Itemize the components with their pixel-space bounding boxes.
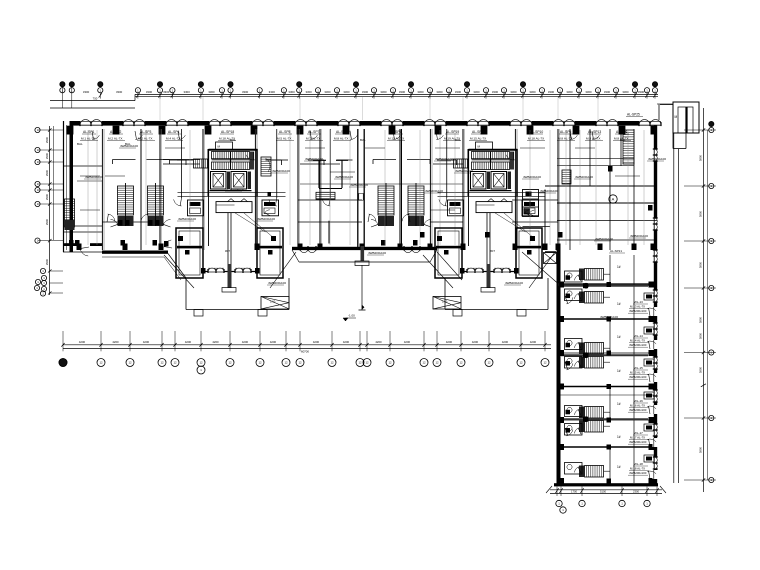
svg-text:4WB200x100: 4WB200x100 <box>629 343 647 347</box>
svg-text:2900: 2900 <box>45 218 49 225</box>
svg-text:AL-SP8: AL-SP8 <box>336 130 348 134</box>
svg-text:3300: 3300 <box>324 90 331 94</box>
svg-text:AL-SP5: AL-SP5 <box>560 130 572 134</box>
svg-text:12: 12 <box>228 361 232 365</box>
svg-text:3300: 3300 <box>604 90 611 94</box>
svg-text:4WB200x100: 4WB200x100 <box>335 175 353 179</box>
svg-text:12: 12 <box>435 361 439 365</box>
svg-text:4WB200x100: 4WB200x100 <box>629 309 647 313</box>
svg-text:AL-SP6: AL-SP6 <box>616 130 628 134</box>
svg-text:M.13 AL-7X: M.13 AL-7X <box>630 305 645 309</box>
svg-text:4200: 4200 <box>530 340 537 344</box>
svg-text:4WB200x100: 4WB200x100 <box>368 251 386 255</box>
svg-text:1#: 1# <box>617 369 621 373</box>
svg-text:3300: 3300 <box>184 90 191 94</box>
svg-text:4200: 4200 <box>472 340 479 344</box>
svg-text:5800: 5800 <box>699 154 703 161</box>
svg-text:4WB200x100: 4WB200x100 <box>629 471 647 475</box>
svg-text:4WB200x100: 4WB200x100 <box>595 237 613 241</box>
svg-text:3300: 3300 <box>529 90 536 94</box>
svg-text:AL-SP5: AL-SP5 <box>279 130 291 134</box>
svg-text:BAL: BAL <box>620 138 626 142</box>
svg-text:AL-SP9: AL-SP9 <box>390 130 402 134</box>
svg-text:4WB200x100: 4WB200x100 <box>505 281 523 285</box>
svg-text:3300: 3300 <box>510 90 517 94</box>
svg-text:AL-SP9: AL-SP9 <box>472 130 484 134</box>
svg-text:M.18 AL-7X: M.18 AL-7X <box>630 467 645 471</box>
svg-text:750: 750 <box>93 97 98 101</box>
svg-text:4WB200x100: 4WB200x100 <box>257 217 275 221</box>
svg-text:AL-SP7: AL-SP7 <box>308 130 320 134</box>
svg-text:AL-SP13: AL-SP13 <box>588 130 601 134</box>
svg-text:3300: 3300 <box>417 90 424 94</box>
svg-text:3300: 3300 <box>242 90 249 94</box>
svg-text:AL-SP18: AL-SP18 <box>221 130 234 134</box>
svg-text:4WB200x100: 4WB200x100 <box>435 157 453 161</box>
svg-text:4WB200x100: 4WB200x100 <box>629 375 647 379</box>
svg-text:4200: 4200 <box>446 340 453 344</box>
svg-text:M: M <box>675 115 678 119</box>
svg-text:M.14 AL-7X: M.14 AL-7X <box>630 339 645 343</box>
svg-text:AL-SP3: AL-SP3 <box>140 130 152 134</box>
svg-text:5800: 5800 <box>699 261 703 268</box>
svg-text:12: 12 <box>199 361 203 365</box>
svg-text:3300: 3300 <box>305 90 312 94</box>
svg-text:4200: 4200 <box>404 340 411 344</box>
svg-text:M.16 AL-7X: M.16 AL-7X <box>630 404 645 408</box>
svg-text:12: 12 <box>173 361 177 365</box>
svg-text:4WB200x100: 4WB200x100 <box>305 157 323 161</box>
svg-text:2900: 2900 <box>45 258 49 265</box>
svg-text:1#: 1# <box>617 335 621 339</box>
svg-text:3300: 3300 <box>380 90 387 94</box>
svg-text:4200: 4200 <box>270 340 277 344</box>
svg-text:3300: 3300 <box>638 90 645 94</box>
svg-text:M.2 AL-7X: M.2 AL-7X <box>108 136 122 140</box>
svg-text:12: 12 <box>160 361 164 365</box>
svg-text:4200: 4200 <box>185 340 192 344</box>
svg-text:4WB200x100: 4WB200x100 <box>629 440 647 444</box>
svg-text:AL-SP10: AL-SP10 <box>530 130 543 134</box>
svg-text:4200: 4200 <box>375 340 382 344</box>
svg-text:3300: 3300 <box>399 90 406 94</box>
svg-text:3300: 3300 <box>622 90 629 94</box>
svg-text:#07: #07 <box>490 249 495 253</box>
svg-text:3300: 3300 <box>163 90 170 94</box>
svg-text:4WB200x100: 4WB200x100 <box>268 281 286 285</box>
svg-text:4200: 4200 <box>343 340 350 344</box>
svg-text:4WB200x100: 4WB200x100 <box>85 175 103 179</box>
svg-text:4WB200x100: 4WB200x100 <box>425 189 443 193</box>
svg-text:12: 12 <box>519 361 523 365</box>
svg-text:1700: 1700 <box>571 490 577 494</box>
svg-text:1#: 1# <box>617 402 621 406</box>
svg-text:12: 12 <box>284 361 288 365</box>
svg-text:A: A <box>612 197 615 202</box>
svg-text:BAL: BAL <box>360 138 366 142</box>
svg-text:4200: 4200 <box>112 340 119 344</box>
svg-text:12: 12 <box>330 361 334 365</box>
svg-text:M.17 AL-7X: M.17 AL-7X <box>630 436 645 440</box>
svg-text:BAL: BAL <box>230 138 236 142</box>
svg-text:2300: 2300 <box>633 490 639 494</box>
svg-text:4WB200x100: 4WB200x100 <box>272 169 290 173</box>
svg-text:M.5 AL-7X: M.5 AL-7X <box>277 136 291 140</box>
svg-text:1#: 1# <box>617 465 621 469</box>
svg-text:5100: 5100 <box>600 490 606 494</box>
svg-text:AL-SP21: AL-SP21 <box>610 249 622 253</box>
svg-text:4WB200x100: 4WB200x100 <box>540 189 558 193</box>
svg-text:12: 12 <box>487 361 491 365</box>
svg-text:3300: 3300 <box>473 90 480 94</box>
svg-text:4WB200x100: 4WB200x100 <box>629 408 647 412</box>
svg-text:2900: 2900 <box>45 169 49 176</box>
svg-text:12: 12 <box>365 361 369 365</box>
svg-text:M.15 AL-7X: M.15 AL-7X <box>388 136 404 140</box>
svg-text:3300: 3300 <box>146 90 153 94</box>
svg-text:3300: 3300 <box>116 90 123 94</box>
svg-text:3300: 3300 <box>585 90 592 94</box>
svg-text:3300: 3300 <box>83 90 90 94</box>
svg-text:AL-SP4: AL-SP4 <box>168 130 180 134</box>
svg-text:M.8 AL-7X: M.8 AL-7X <box>334 136 348 140</box>
svg-text:4WB200x100: 4WB200x100 <box>648 157 666 161</box>
svg-text:WL-14: WL-14 <box>634 334 643 338</box>
svg-text:3300: 3300 <box>288 90 295 94</box>
svg-text:BAL: BAL <box>455 138 461 142</box>
svg-text:5800: 5800 <box>699 366 703 373</box>
svg-text:12: 12 <box>358 361 362 365</box>
svg-text:-1.00: -1.00 <box>348 314 355 318</box>
svg-text:AL-SP19: AL-SP19 <box>446 130 459 134</box>
svg-text:4200: 4200 <box>79 340 86 344</box>
svg-text:M.8 AL-7X: M.8 AL-7X <box>558 136 572 140</box>
svg-text:3300: 3300 <box>492 90 499 94</box>
svg-text:M.15 AL-7X: M.15 AL-7X <box>470 136 486 140</box>
svg-text:M.4 AL-7X: M.4 AL-7X <box>166 136 180 140</box>
svg-text:1:10: 1:10 <box>442 299 448 303</box>
svg-text:5800: 5800 <box>699 210 703 217</box>
svg-text:3300: 3300 <box>436 90 443 94</box>
svg-text:2900: 2900 <box>45 152 49 159</box>
svg-text:12: 12 <box>99 361 103 365</box>
svg-text:M.2 AL-7X: M.2 AL-7X <box>138 136 152 140</box>
svg-text:5800: 5800 <box>699 316 703 323</box>
svg-text:4WB200x100: 4WB200x100 <box>120 144 138 148</box>
svg-text:4200: 4200 <box>242 340 249 344</box>
svg-text:4WB200x100: 4WB200x100 <box>350 183 368 187</box>
svg-text:M.15 AL-7X: M.15 AL-7X <box>630 371 645 375</box>
svg-text:4200: 4200 <box>212 340 219 344</box>
svg-text:12: 12 <box>128 361 132 365</box>
svg-text:3300: 3300 <box>343 90 350 94</box>
svg-text:4WB200x100: 4WB200x100 <box>523 175 541 179</box>
svg-text:WL-16: WL-16 <box>634 399 643 403</box>
svg-text:M.18 AL-7X: M.18 AL-7X <box>528 136 544 140</box>
svg-text:2900: 2900 <box>45 193 49 200</box>
svg-text:1#: 1# <box>617 435 621 439</box>
svg-text:5800: 5800 <box>699 332 703 339</box>
svg-text:12: 12 <box>422 361 426 365</box>
svg-text:WL-15: WL-15 <box>634 366 643 370</box>
svg-text:3300: 3300 <box>548 90 555 94</box>
svg-text:4200: 4200 <box>313 340 320 344</box>
svg-text:WL-13: WL-13 <box>634 300 643 304</box>
svg-text:1#: 1# <box>617 265 621 269</box>
svg-text:4200: 4200 <box>502 340 509 344</box>
svg-text:5800: 5800 <box>699 446 703 453</box>
svg-text:M.8 AL-7X: M.8 AL-7X <box>586 136 600 140</box>
svg-text:WL-17: WL-17 <box>634 431 643 435</box>
svg-text:AL-SP2: AL-SP2 <box>110 130 122 134</box>
svg-text:AL-SP25: AL-SP25 <box>627 113 640 117</box>
svg-text:M.7 AL-7X: M.7 AL-7X <box>306 136 320 140</box>
svg-text:M.1 AL-7X: M.1 AL-7X <box>81 136 95 140</box>
svg-text:12: 12 <box>543 361 547 365</box>
svg-text:AL-SP1: AL-SP1 <box>83 130 95 134</box>
svg-text:3300: 3300 <box>566 90 573 94</box>
svg-text:3300: 3300 <box>455 90 462 94</box>
svg-text:BAL: BAL <box>77 142 83 146</box>
svg-text:WL-18: WL-18 <box>634 462 643 466</box>
svg-text:3300: 3300 <box>208 90 215 94</box>
svg-text:4WB200x100: 4WB200x100 <box>226 188 244 192</box>
svg-text:4WB200x100: 4WB200x100 <box>575 175 593 179</box>
svg-text:1#: 1# <box>617 302 621 306</box>
svg-text:4WB200x100: 4WB200x100 <box>630 234 648 238</box>
svg-text:2900: 2900 <box>45 136 49 143</box>
svg-text:4WB200x100: 4WB200x100 <box>178 217 196 221</box>
svg-text:4200: 4200 <box>143 340 150 344</box>
svg-text:60700: 60700 <box>301 349 309 353</box>
svg-text:12: 12 <box>388 361 392 365</box>
svg-text:3300: 3300 <box>269 90 276 94</box>
svg-text:3300: 3300 <box>362 90 369 94</box>
svg-text:12: 12 <box>258 361 262 365</box>
svg-text:12: 12 <box>298 361 302 365</box>
svg-text:4WB200x100: 4WB200x100 <box>455 169 473 173</box>
svg-text:12: 12 <box>459 361 463 365</box>
svg-text:1:10: 1:10 <box>270 299 276 303</box>
